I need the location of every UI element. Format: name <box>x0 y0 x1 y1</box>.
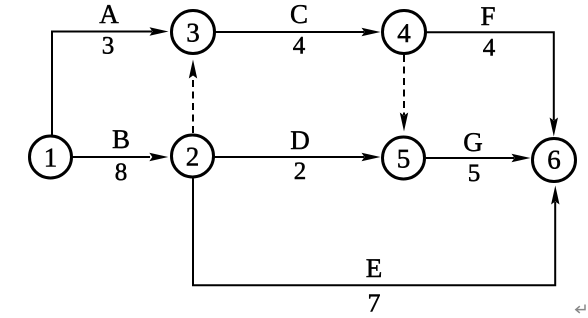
svg-text:3: 3 <box>102 33 115 60</box>
svg-text:5: 5 <box>468 160 481 187</box>
wire D: node 2 to node 5 <box>215 156 365 158</box>
svg-text:E: E <box>366 253 383 283</box>
arrowhead down into node 5 <box>400 113 408 132</box>
svg-text:A: A <box>99 0 119 29</box>
svg-text:4: 4 <box>483 35 496 62</box>
arrowhead into node 3 <box>150 27 169 35</box>
node 6 <box>533 139 576 182</box>
svg-text:4: 4 <box>293 33 306 60</box>
arrowhead up into node 6 bottom <box>551 186 559 205</box>
node 3 <box>172 11 215 54</box>
node 4 <box>383 11 426 54</box>
svg-text:5: 5 <box>397 144 411 174</box>
paragraph return mark <box>576 305 585 313</box>
svg-text:7: 7 <box>368 289 381 318</box>
dashed dummy arrow node 2 to node 3 <box>192 75 194 133</box>
arrowhead into node 6 top <box>550 118 558 137</box>
dashed dummy arrow node 4 to node 5 <box>403 55 405 115</box>
svg-text:C: C <box>290 0 308 29</box>
arrowhead into node 5 <box>362 153 381 161</box>
svg-text:F: F <box>480 1 495 31</box>
svg-text:D: D <box>290 125 310 155</box>
svg-text:B: B <box>112 124 130 154</box>
svg-text:3: 3 <box>186 18 200 48</box>
svg-text:G: G <box>463 127 483 157</box>
svg-text:2: 2 <box>294 158 307 185</box>
node 1 <box>30 136 72 178</box>
wire C: node 3 to node 4 <box>216 31 365 33</box>
wire G: node 5 to node 6 <box>426 157 514 159</box>
svg-text:1: 1 <box>44 143 58 173</box>
arrowhead into node 2 <box>149 153 168 161</box>
node 5 <box>383 137 425 179</box>
arrowhead into node 4 <box>362 28 381 36</box>
svg-text:2: 2 <box>186 142 200 172</box>
svg-text:4: 4 <box>397 18 411 48</box>
node 2 <box>172 135 214 177</box>
wire E: node 2 down, right, up into node 6 <box>193 179 555 286</box>
svg-text:8: 8 <box>115 159 128 186</box>
svg-text:6: 6 <box>547 145 561 175</box>
arrowhead up into node 3 <box>189 60 197 79</box>
arrowhead into node 6 <box>512 154 531 162</box>
wire B: node 1 to node 2 <box>72 156 150 158</box>
wire A: node 1 up and right to node 3 <box>51 32 53 137</box>
wire F: node 4 right then down to node 6 <box>427 32 554 120</box>
